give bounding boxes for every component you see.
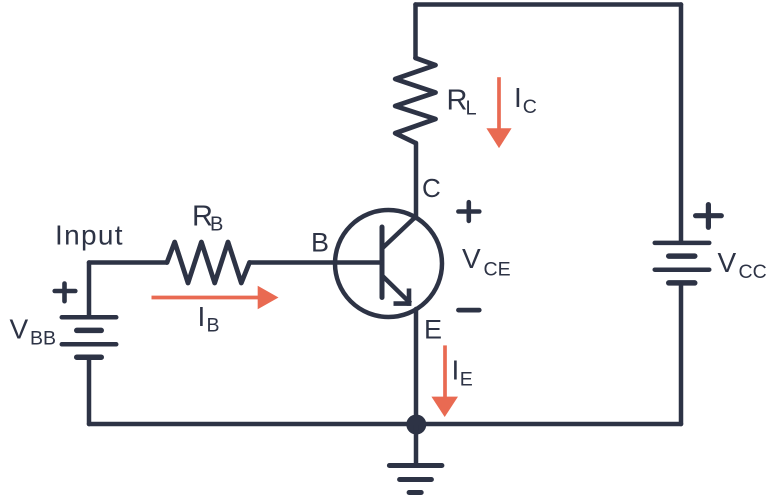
minus sign VCE: [459, 308, 480, 313]
transistor Q1 emitter arrowhead: [394, 289, 412, 306]
wire input branch top: [87, 263, 92, 316]
arrow I_B: [152, 286, 279, 309]
arrow I_C: [486, 77, 511, 148]
transistor Q1 emitter stroke: [382, 276, 411, 304]
svg-text:I: I: [514, 82, 522, 113]
svg-text:I: I: [198, 301, 206, 332]
resistor R_L: [395, 58, 435, 143]
svg-text:B: B: [210, 214, 223, 236]
svg-text:C: C: [422, 173, 441, 203]
svg-text:B: B: [311, 228, 329, 258]
battery V_CC: [655, 243, 710, 283]
svg-text:I: I: [452, 355, 460, 386]
wire bottom rail: [89, 422, 681, 427]
wire right branch to VCC: [679, 5, 684, 241]
svg-text:E: E: [424, 315, 442, 345]
svg-text:V: V: [462, 243, 481, 274]
wire VCC bottom lead: [679, 285, 684, 424]
wire top rail: [416, 2, 682, 7]
wire emitter: [414, 309, 419, 425]
svg-text:CE: CE: [484, 259, 511, 281]
svg-text:B: B: [207, 315, 220, 337]
svg-text:Input: Input: [55, 219, 124, 250]
transistor Q1 collector stroke: [382, 216, 417, 249]
svg-text:V: V: [10, 314, 29, 345]
wire collector to transistor: [414, 143, 419, 218]
plus sign VCC: [696, 205, 722, 228]
svg-text:L: L: [466, 98, 477, 120]
plus sign VCE: [458, 202, 479, 221]
svg-text:C: C: [523, 96, 537, 118]
node junction: [406, 415, 426, 435]
ground: [389, 466, 442, 493]
wire input branch bottom: [87, 360, 92, 425]
svg-text:E: E: [460, 368, 473, 390]
resistor R_B: [167, 242, 250, 283]
svg-text:R: R: [447, 84, 468, 116]
transistor Q1 circle: [335, 210, 442, 317]
arrow I_E: [431, 345, 458, 417]
transistor Q1 base bar: [380, 227, 385, 298]
wire base: [89, 260, 382, 265]
ground stub: [414, 425, 419, 464]
battery V_BB: [62, 317, 117, 357]
wire collector top lead: [413, 5, 418, 59]
svg-text:BB: BB: [30, 328, 56, 350]
svg-text:CC: CC: [739, 261, 767, 283]
svg-text:V: V: [718, 247, 737, 278]
plus sign VBB: [55, 284, 76, 302]
